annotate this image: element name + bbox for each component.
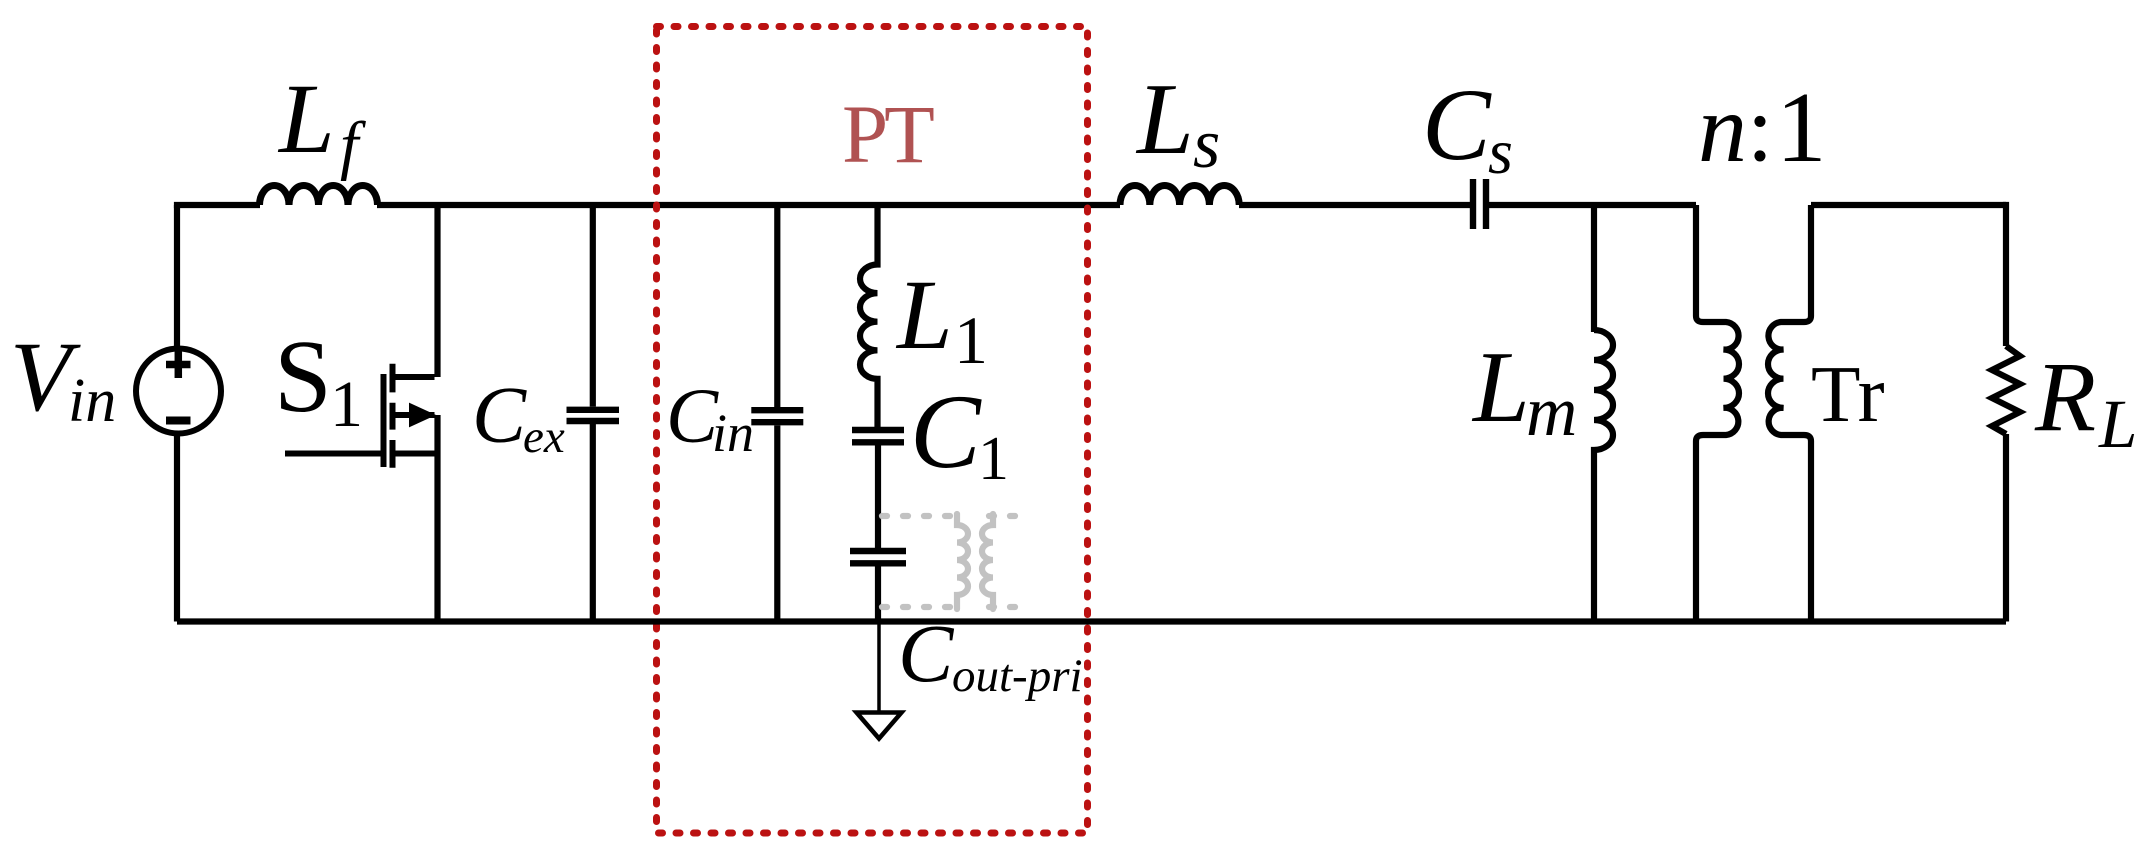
label n:1 — [1698, 71, 1827, 183]
parasitic transformer (gray dashed) — [882, 514, 1031, 609]
capacitor C1 — [852, 430, 904, 548]
label Cin — [666, 372, 754, 463]
label Cex — [472, 370, 565, 463]
inductor Ls — [1120, 185, 1239, 205]
svg-text:1: 1 — [330, 368, 363, 441]
label C1 — [910, 373, 1009, 493]
svg-text:L: L — [1135, 63, 1194, 176]
label Cout-pri — [898, 607, 1083, 702]
svg-text:s: s — [1193, 106, 1220, 183]
svg-text:ex: ex — [523, 411, 565, 463]
bottom rail wire — [177, 618, 2006, 624]
inductor Lf — [260, 186, 378, 206]
svg-text:C: C — [910, 373, 982, 490]
svg-text:in: in — [712, 403, 754, 463]
label RL — [2034, 341, 2137, 462]
svg-text:1: 1 — [978, 425, 1009, 493]
label Lm — [1471, 331, 1577, 451]
svg-text:L: L — [1471, 331, 1530, 444]
capacitor Cin — [751, 205, 803, 622]
capacitor Cs — [1473, 179, 1486, 229]
wire top rail from source to Lf — [174, 202, 260, 208]
capacitor Cex — [567, 205, 620, 622]
svg-text::: : — [1747, 77, 1773, 181]
transistor S1 (MOSFET) — [285, 205, 438, 622]
svg-text:S: S — [274, 319, 332, 434]
label Cs — [1422, 68, 1513, 187]
label S1 — [274, 319, 363, 441]
voltage source Vin — [136, 349, 221, 434]
svg-text:C: C — [472, 370, 527, 460]
svg-text:n: n — [1698, 75, 1747, 183]
capacitor Cout-pri — [850, 551, 906, 622]
svg-text:L: L — [2098, 386, 2137, 462]
svg-text:m: m — [1526, 373, 1577, 451]
wire top rail from Lf to Ls — [377, 202, 1120, 208]
inductor L1 — [860, 205, 878, 427]
ground — [857, 622, 902, 739]
resistor RL — [1992, 202, 2020, 622]
svg-text:R: R — [2034, 341, 2096, 452]
svg-text:L: L — [277, 63, 335, 174]
svg-text:out-pri: out-pri — [952, 650, 1083, 702]
svg-text:L: L — [895, 259, 953, 370]
PT dashed boundary box — [657, 27, 1088, 834]
wire top rail from Cs to transformer primary — [1489, 202, 1696, 208]
transformer Tr secondary winding — [1768, 205, 1811, 622]
inductor Lm — [1594, 330, 1613, 622]
svg-text:f: f — [340, 109, 366, 182]
svg-text:PT: PT — [842, 88, 934, 180]
svg-text:1: 1 — [954, 302, 988, 378]
wire from top rail down to Lm — [1591, 205, 1597, 332]
transformer Tr primary winding — [1696, 205, 1739, 622]
svg-text:Tr: Tr — [1811, 349, 1885, 439]
label L1 — [895, 259, 988, 378]
wire top rail from Ls to Cs — [1239, 202, 1470, 208]
svg-text:C: C — [1422, 68, 1492, 182]
label Lf — [277, 63, 366, 182]
label Ls — [1135, 63, 1220, 183]
wire left vertical from top rail to source top — [174, 205, 180, 348]
wire top rail from secondary to RL — [1811, 202, 2006, 208]
label Vin — [10, 321, 116, 435]
svg-text:1: 1 — [1776, 71, 1827, 183]
wire left vertical from source bottom to bottom rail — [174, 435, 180, 622]
svg-text:s: s — [1488, 116, 1513, 187]
svg-text:in: in — [68, 367, 116, 435]
